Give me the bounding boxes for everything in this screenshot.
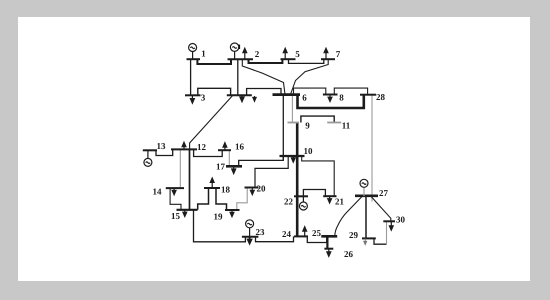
bus 13 xyxy=(143,149,157,151)
svg-text:26: 26 xyxy=(344,249,354,259)
generator G23 xyxy=(246,220,254,237)
wire thick chain 9-10-22-24 xyxy=(296,123,299,237)
bus 3 xyxy=(185,94,201,96)
svg-text:7: 7 xyxy=(336,49,341,59)
bus 24 xyxy=(294,235,308,237)
wire line 1-2 xyxy=(197,59,231,64)
wire line 25-27 diagonal xyxy=(335,197,362,237)
bus 30 xyxy=(383,220,395,222)
svg-text:21: 21 xyxy=(335,197,345,207)
wire line 14-15 xyxy=(170,188,181,210)
load arrow bus 8 down xyxy=(328,95,332,102)
wire line 25-26 xyxy=(326,236,328,248)
svg-text:29: 29 xyxy=(349,230,359,240)
svg-text:14: 14 xyxy=(153,187,163,197)
wire line 17-10 xyxy=(239,156,284,166)
wire line 1-3 xyxy=(190,59,192,95)
svg-text:23: 23 xyxy=(256,227,266,237)
wire line 4-12 diagonal xyxy=(190,96,233,150)
bus 23 xyxy=(242,236,259,238)
svg-text:22: 22 xyxy=(284,197,294,207)
svg-text:1: 1 xyxy=(201,49,206,59)
generator G13 xyxy=(144,150,152,166)
svg-text:8: 8 xyxy=(339,93,344,103)
load arrow bus 12 up xyxy=(182,142,186,149)
svg-text:18: 18 xyxy=(221,185,231,195)
svg-text:24: 24 xyxy=(282,229,292,239)
wire line 10-21 xyxy=(302,156,335,196)
svg-text:2: 2 xyxy=(255,49,260,59)
svg-text:19: 19 xyxy=(214,212,224,222)
wire line 12-16 xyxy=(194,149,223,156)
generator G2 xyxy=(230,43,240,59)
svg-text:12: 12 xyxy=(197,142,207,152)
bus 22 xyxy=(294,195,308,197)
wire line 18-19 xyxy=(216,188,227,210)
bus 18 xyxy=(204,187,220,189)
wire line 15-23 xyxy=(194,210,246,242)
load arrow bus 3 down xyxy=(190,95,194,103)
bus 26 xyxy=(324,248,333,250)
wire line 12-15 xyxy=(189,149,191,209)
svg-text:25: 25 xyxy=(312,228,322,238)
svg-text:3: 3 xyxy=(201,93,206,103)
load arrow bus 4 down xyxy=(240,95,244,102)
wire line 10-20 xyxy=(255,156,288,188)
wire line 2-4 xyxy=(237,59,239,95)
bus 2 xyxy=(228,58,254,60)
svg-text:10: 10 xyxy=(304,146,314,156)
load arrow bus 17 down xyxy=(232,166,236,173)
bus 14 xyxy=(166,187,184,189)
wire line 2-6 diagonal xyxy=(242,59,285,94)
wire line 27-29 xyxy=(365,196,367,238)
load arrow bus 30 down xyxy=(389,221,393,230)
svg-text:30: 30 xyxy=(396,215,406,225)
load arrow bus 21 down xyxy=(328,196,332,203)
bus 10 xyxy=(280,155,305,157)
load arrow bus 7 up xyxy=(324,48,328,59)
wire line 4-6 xyxy=(247,89,281,96)
generator G27 xyxy=(360,179,368,196)
wire line 6-8 xyxy=(294,88,326,95)
wire line 9-11 xyxy=(301,116,334,122)
wire line 24-25 xyxy=(307,236,326,242)
wire line 23-24 xyxy=(256,236,294,241)
bus 8 xyxy=(323,94,338,96)
load arrow bus 29 down small xyxy=(364,238,367,244)
wire line 29-30 xyxy=(374,238,387,244)
svg-text:17: 17 xyxy=(216,162,226,172)
wire line 5-7 xyxy=(289,59,324,63)
load arrow bus 18 up xyxy=(210,178,214,188)
svg-text:5: 5 xyxy=(295,49,300,59)
load arrow bus 24 up xyxy=(303,227,307,237)
bus 4 xyxy=(227,94,252,96)
svg-text:20: 20 xyxy=(257,184,267,194)
wire line 2-5 xyxy=(249,59,283,63)
bus 11 xyxy=(327,122,341,124)
wire line 21-22 xyxy=(303,190,325,197)
load arrow bus 16 up xyxy=(223,143,227,151)
load arrow bus 5 up xyxy=(283,48,287,59)
bus 15 xyxy=(177,209,198,211)
svg-text:27: 27 xyxy=(379,188,389,198)
svg-text:15: 15 xyxy=(171,211,181,221)
wire line 6-28 thick xyxy=(298,95,364,108)
bus 29 xyxy=(362,237,376,239)
bus 27 xyxy=(355,195,378,198)
load arrow bus 2 up xyxy=(243,48,247,59)
wire line 3-4 xyxy=(198,88,231,95)
wire line 27-30 diagonal xyxy=(371,196,391,221)
load arrow bus 26 down xyxy=(327,249,331,257)
wire line 6-10 xyxy=(282,95,284,161)
wire line 13-12 xyxy=(156,149,173,155)
wire line 6-7 diagonal xyxy=(291,59,329,94)
load arrow bus 15 down xyxy=(183,210,187,217)
load arrow bus 19 down xyxy=(230,210,234,217)
svg-text:11: 11 xyxy=(342,121,351,131)
wire line 19-20 xyxy=(237,188,247,211)
bus 6 xyxy=(273,93,301,96)
bus 17 xyxy=(226,165,242,168)
bus 16 xyxy=(218,149,231,151)
small stray arrow right of bus 4 xyxy=(253,96,256,101)
wire line 6-9 xyxy=(291,95,293,123)
bus 9 xyxy=(288,122,300,124)
bus 7 xyxy=(321,58,335,60)
wire line 15-18 xyxy=(198,188,209,210)
wire line 16-17 xyxy=(228,150,230,166)
svg-text:13: 13 xyxy=(157,141,167,151)
load arrow bus 10 down xyxy=(291,156,295,162)
bus 1 xyxy=(187,58,201,60)
svg-text:16: 16 xyxy=(235,142,245,152)
bus 12 xyxy=(171,148,197,150)
load arrow bus 14 down xyxy=(172,188,176,195)
bus 20 xyxy=(245,187,259,189)
bus 19 xyxy=(225,209,240,211)
bus 25 xyxy=(321,235,337,238)
svg-text:6: 6 xyxy=(302,93,307,103)
wire line 28-27 xyxy=(371,95,373,202)
generator G1 xyxy=(189,44,197,60)
bus 28 xyxy=(360,94,376,96)
load arrow bus 23 down bold xyxy=(247,237,252,244)
wire line 12-14 xyxy=(179,149,181,188)
load arrow bus 20 down xyxy=(250,188,254,195)
bus 5 xyxy=(281,58,296,60)
svg-text:9: 9 xyxy=(305,121,310,131)
wire line 8-28 xyxy=(334,88,367,95)
bus 21 xyxy=(323,195,336,197)
generator G22 xyxy=(299,196,307,210)
svg-text:28: 28 xyxy=(376,92,386,102)
